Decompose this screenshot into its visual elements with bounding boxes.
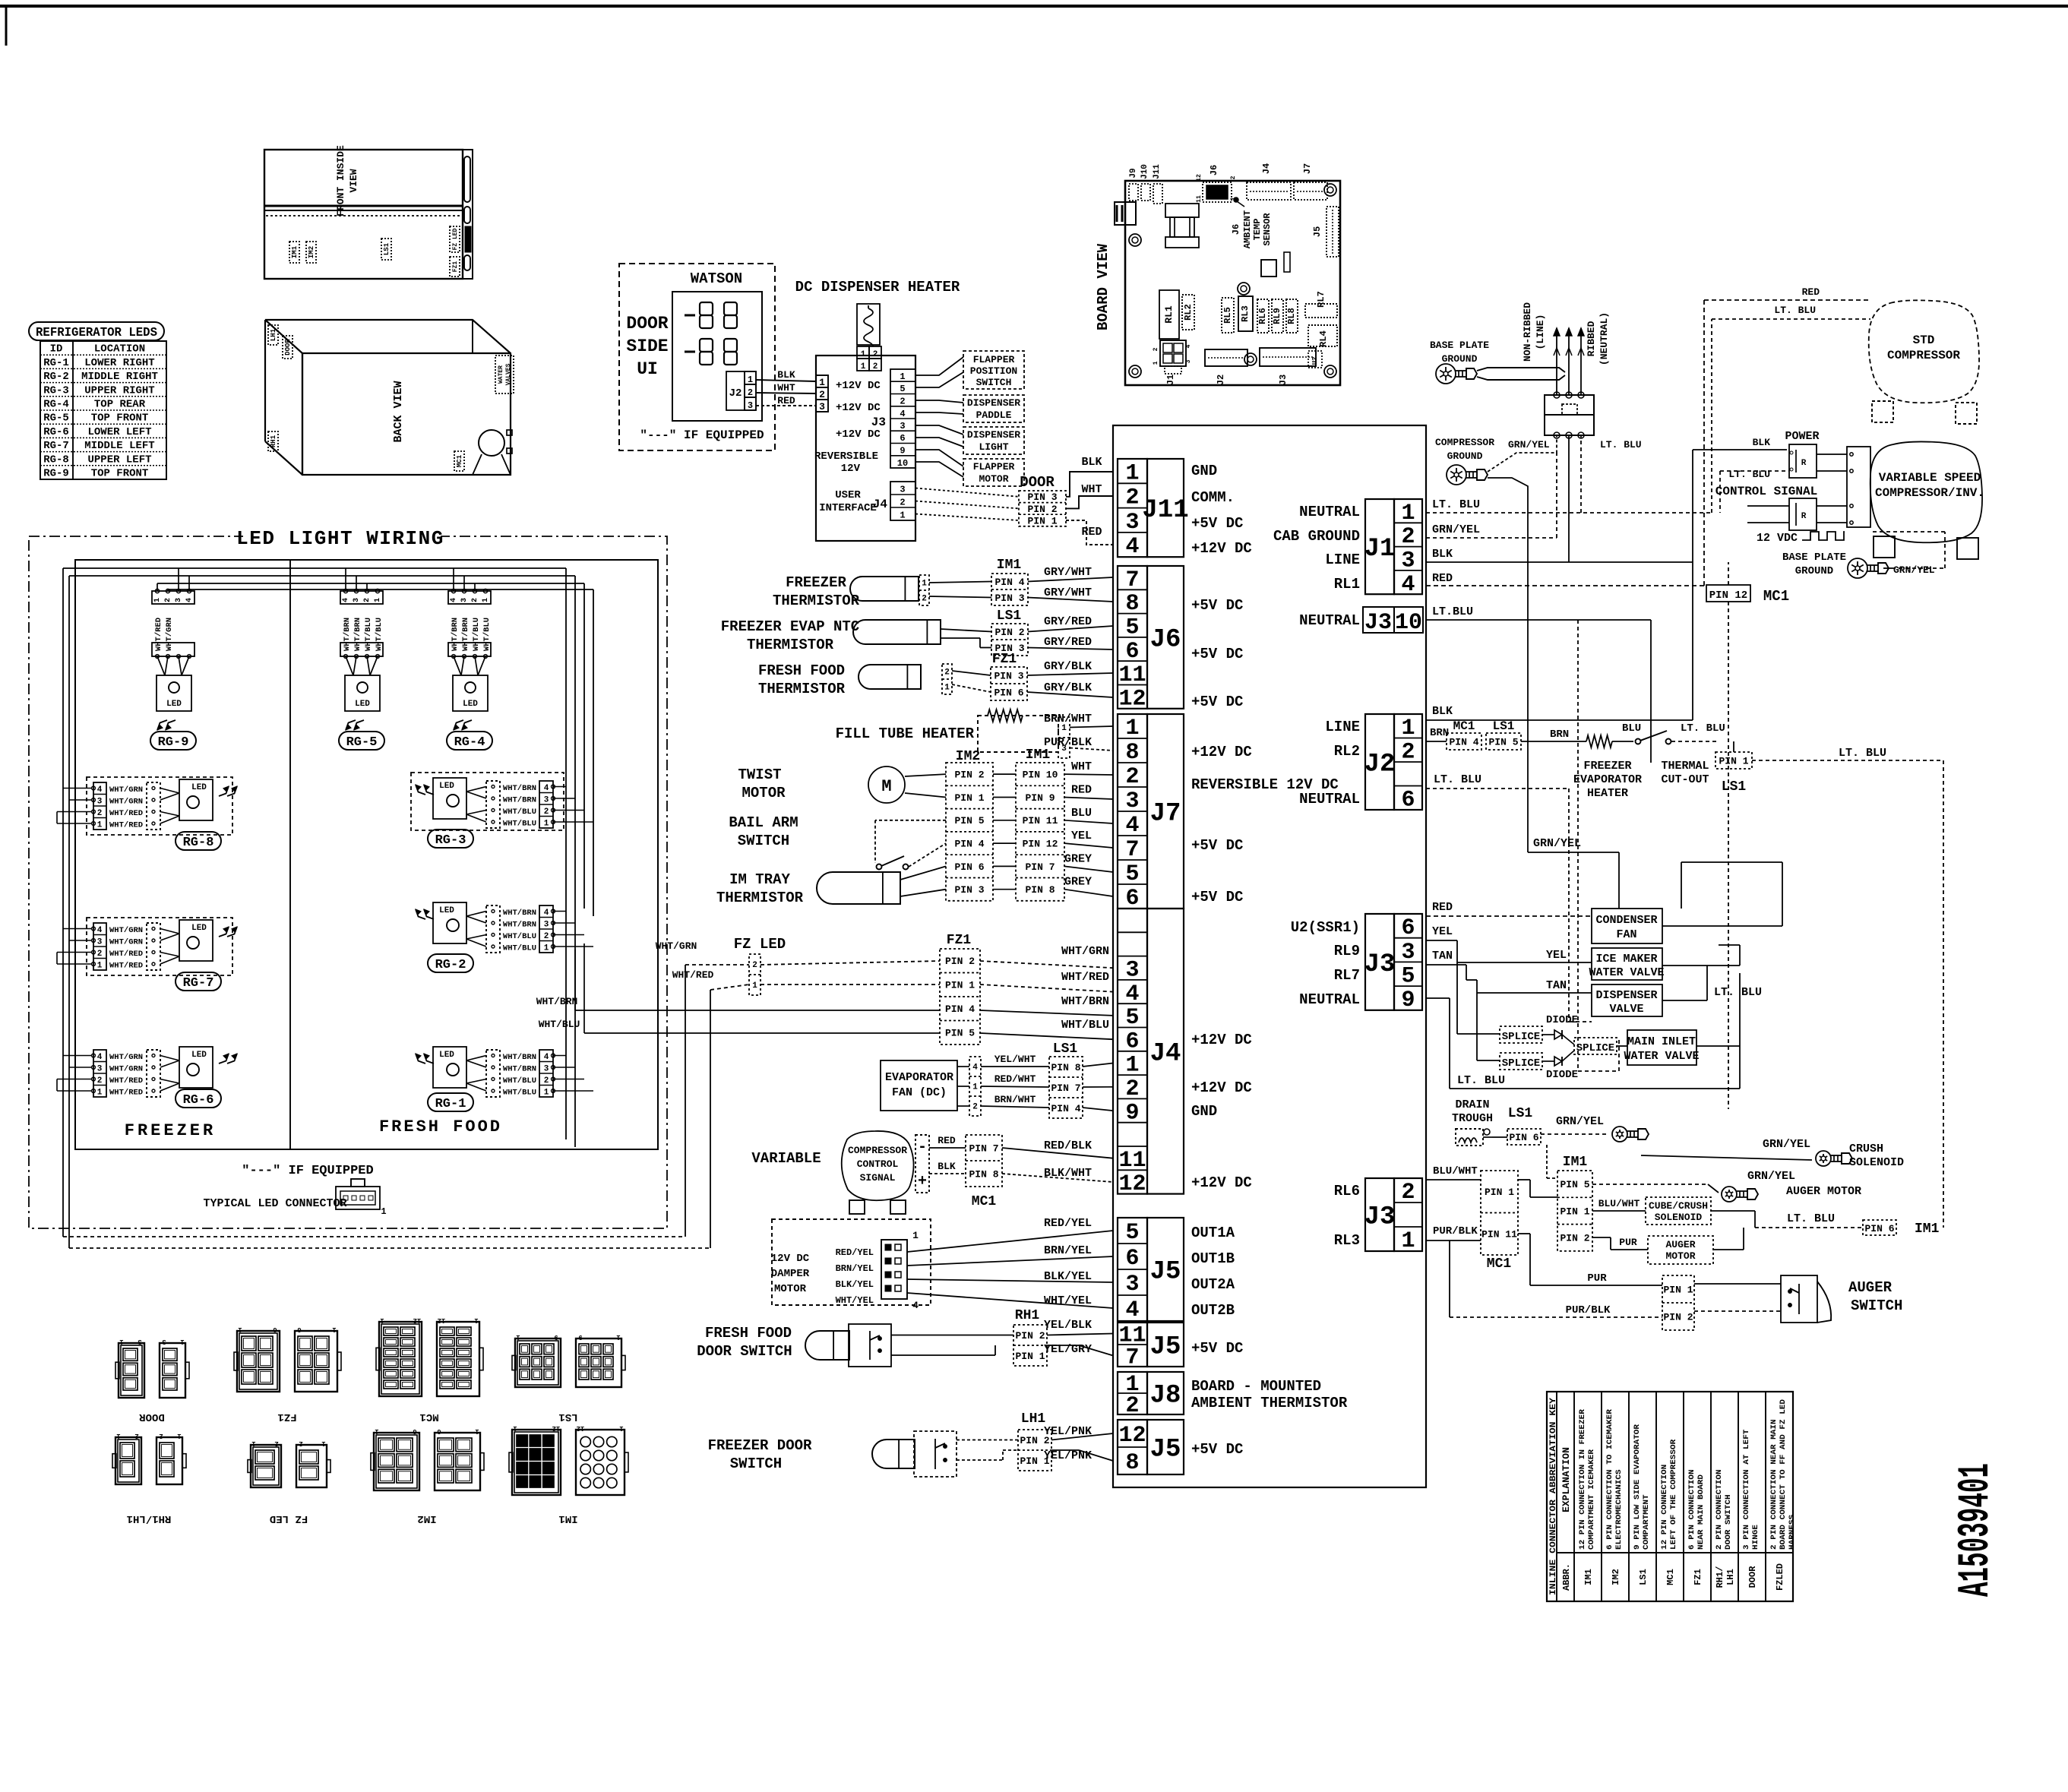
svg-text:1: 1 [1153,361,1159,365]
svg-text:10: 10 [1395,610,1422,636]
svg-text:DOOR SWITCH: DOOR SWITCH [697,1343,792,1360]
svg-text:WHT/YEL: WHT/YEL [836,1295,874,1306]
svg-text:1: 1 [944,684,950,693]
svg-text:2: 2 [972,1103,978,1112]
svg-text:AMBIENT: AMBIENT [1242,210,1253,248]
door side UI dashed enclosure [619,264,775,450]
cube crush solenoid [1646,1197,1711,1225]
svg-text:4: 4 [97,1053,103,1062]
svg-text:1: 1 [238,1326,242,1333]
svg-text:DAMPER: DAMPER [771,1268,810,1280]
wire WHT watson to UI [756,393,816,393]
svg-text:WHT/BRN: WHT/BRN [503,796,536,805]
pcb relay RL9 [1272,299,1283,333]
LED module RG-5 label [339,732,384,750]
LED module RG-1 pin connector [539,1050,553,1097]
svg-text:(LINE): (LINE) [1535,314,1546,350]
LED module RG-7 feed wires [63,928,92,930]
svg-text:THERMAL: THERMAL [1661,760,1709,773]
svg-text:IM1: IM1 [997,558,1022,573]
wires auger switch [1694,1283,1781,1285]
svg-text:4: 4 [1401,572,1415,598]
svg-text:1: 1 [475,1427,479,1435]
connector pictogram RH1/LH1 [115,1437,141,1484]
svg-text:FAN (DC): FAN (DC) [892,1086,947,1099]
svg-text:BLU/WHT: BLU/WHT [1598,1198,1640,1209]
svg-text:3: 3 [1125,1272,1139,1297]
svg-text:2: 2 [1125,485,1139,511]
svg-text:LOWER RIGHT: LOWER RIGHT [84,357,154,369]
svg-text:LEFT OF THE COMPRESSOR: LEFT OF THE COMPRESSOR [1669,1439,1678,1550]
svg-text:R: R [1801,512,1807,521]
back view MC1 marker [454,451,464,471]
pin12 MC1 node [1706,585,1750,602]
svg-text:CUBE/CRUSH: CUBE/CRUSH [1649,1200,1708,1212]
svg-text:AUGER MOTOR: AUGER MOTOR [1786,1185,1861,1198]
svg-text:WHT/RED: WHT/RED [109,1089,143,1098]
wire WHT/BLU to J4-6 [980,1033,1113,1039]
svg-text:TYPICAL LED CONNECTOR: TYPICAL LED CONNECTOR [203,1197,346,1210]
svg-text:RL2: RL2 [1183,304,1194,321]
svg-text:HEATER: HEATER [1587,787,1628,800]
svg-text:GROUND: GROUND [1442,353,1478,365]
svg-text:1: 1 [922,580,927,589]
svg-text:LED: LED [191,924,207,933]
svg-text:1: 1 [900,371,905,382]
svg-text:TOP FRONT: TOP FRONT [91,412,149,425]
wire PUR to auger switch [1530,1285,1662,1286]
svg-text:PIN 4: PIN 4 [945,1003,975,1015]
svg-text:LT. BLU: LT. BLU [1774,305,1816,316]
svg-text:LT. BLU: LT. BLU [1714,986,1762,999]
svg-text:WHT/BLU: WHT/BLU [503,1076,536,1086]
variable speed compressor blob [1870,441,1982,542]
svg-text:BLU/WHT: BLU/WHT [1433,1165,1478,1177]
svg-text:2: 2 [1125,1393,1139,1419]
page top border line [0,5,2068,8]
svg-text:+12V DC: +12V DC [1191,1174,1252,1191]
svg-text:ELECTROMECHANICS: ELECTROMECHANICS [1614,1469,1624,1550]
svg-text:NEAR MAIN BOARD: NEAR MAIN BOARD [1696,1474,1706,1550]
wires LH1 to J5 [957,1440,1018,1441]
svg-text:NEUTRAL: NEUTRAL [1299,791,1360,808]
heater connector cells [857,346,869,359]
LED module RG-2 feed wires [553,911,566,912]
svg-text:PIN 1: PIN 1 [945,980,975,991]
svg-text:LT. BLU: LT. BLU [1432,498,1480,511]
svg-text:3: 3 [460,598,469,602]
svg-text:(NEUTRAL): (NEUTRAL) [1598,312,1610,365]
svg-text:RH1/LH1: RH1/LH1 [127,1512,172,1525]
svg-text:THERMISTOR: THERMISTOR [758,681,846,697]
svg-text:TEMP: TEMP [1252,219,1263,241]
svg-text:12 PIN CONNECTION: 12 PIN CONNECTION [1660,1465,1669,1550]
wires MC1 to IM1 [1518,1179,1530,1180]
main control board outline [1113,425,1426,1487]
svg-text:GREY: GREY [1064,876,1092,889]
svg-text:PIN 2: PIN 2 [1027,504,1057,515]
LED module RG-4 label [447,732,492,750]
svg-text:SIGNAL: SIGNAL [860,1172,896,1184]
svg-text:RL5: RL5 [1222,307,1233,324]
svg-text:WHT/BRN: WHT/BRN [1061,995,1109,1008]
label REFRIGERATOR LEDS [29,322,164,340]
svg-text:5: 5 [1125,1220,1139,1246]
LED module RG-9 lamp [157,675,191,711]
svg-text:RG-6: RG-6 [43,426,69,438]
std compressor blob [1869,300,1979,403]
title LED LIGHT WIRING [243,526,441,547]
svg-text:TOP FRONT: TOP FRONT [91,468,149,480]
svg-text:WHT/BRN: WHT/BRN [503,1065,536,1074]
svg-text:3: 3 [162,1338,166,1345]
watson connector J2 [726,371,745,410]
svg-text:LED LIGHT WIRING: LED LIGHT WIRING [236,527,444,550]
svg-text:PIN 7: PIN 7 [969,1143,998,1154]
pcb connector J1 bottom [1160,340,1186,366]
UI left pins 1 2 3 [816,375,828,387]
svg-text:4: 4 [342,598,350,602]
svg-text:MC1: MC1 [456,454,463,467]
svg-text:FZLED: FZLED [1775,1563,1785,1591]
svg-text:IM1: IM1 [291,245,299,258]
LED module RG-2 strip connector [486,905,500,953]
svg-text:GRY/BLK: GRY/BLK [1044,660,1092,673]
LED module RG-8 feed wires [63,788,92,789]
svg-text:WHT: WHT [777,382,795,393]
wires fill tube heater to J7 [1070,726,1113,728]
svg-text:J3: J3 [1364,1203,1396,1232]
LED module RG-9 label [150,732,196,750]
svg-text:PIN 1: PIN 1 [1485,1187,1514,1198]
svg-text:J3: J3 [871,416,886,429]
svg-text:IM1: IM1 [1915,1222,1940,1237]
svg-text:UPPER RIGHT: UPPER RIGHT [84,384,154,397]
svg-text:J1: J1 [1165,375,1176,385]
front view connector FZ1 marker [450,257,460,277]
svg-text:+5V DC: +5V DC [1191,694,1243,710]
svg-text:MC1: MC1 [1763,588,1789,605]
svg-text:HINGE: HINGE [1751,1525,1760,1550]
back view DOOR marker [283,336,292,359]
svg-text:WHT/BRN: WHT/BRN [536,996,578,1007]
svg-text:NEUTRAL: NEUTRAL [1299,612,1360,629]
svg-text:UI: UI [637,359,658,379]
svg-text:+12V DC: +12V DC [1191,1079,1252,1096]
svg-text:1: 1 [900,510,905,521]
svg-text:VALVES: VALVES [505,363,512,385]
connector pictogram IM2 [374,1433,419,1490]
connector pictogram DOOR [119,1343,144,1398]
svg-text:9: 9 [578,1333,582,1341]
svg-text:MAIN INLET: MAIN INLET [1627,1035,1696,1048]
back view compressor [479,430,504,456]
svg-text:UPPER LEFT: UPPER LEFT [87,454,151,466]
svg-text:WHT/RED: WHT/RED [672,969,714,981]
svg-text:BLK/WHT: BLK/WHT [1044,1167,1092,1180]
svg-text:BLU: BLU [1622,722,1641,735]
wires IM2 to IM1 [993,773,1016,775]
svg-text:1: 1 [748,375,753,385]
wires GRY/BLK to J6 [952,671,991,675]
wires GRY/RED to J6 [941,629,991,632]
front view connector IM1 marker [289,242,299,263]
LED module RG-6 wires strip to LED [160,1056,179,1061]
svg-text:1: 1 [97,1089,103,1098]
svg-text:J9: J9 [1129,168,1138,178]
svg-text:PIN 2: PIN 2 [945,956,975,967]
svg-text:MOTOR: MOTOR [979,473,1008,485]
svg-text:2: 2 [164,598,172,602]
svg-text:J2: J2 [1364,751,1396,779]
svg-text:4: 4 [185,598,194,602]
svg-text:RG-5: RG-5 [43,412,69,425]
svg-text:RL6: RL6 [1257,308,1268,324]
svg-text:PUR/BLK: PUR/BLK [1433,1225,1478,1237]
damper motor connector [881,1240,907,1299]
pcb relay RL2 [1182,295,1194,330]
svg-text:RED/WHT: RED/WHT [994,1073,1036,1085]
svg-text:GND: GND [1191,1103,1217,1120]
svg-text:PIN 1: PIN 1 [1015,1351,1045,1362]
svg-text:WHT/BLU: WHT/BLU [503,944,536,953]
svg-text:WHT/GRN: WHT/GRN [109,1065,143,1074]
svg-text:RH1: RH1 [1015,1308,1040,1323]
svg-text:PIN 6: PIN 6 [1509,1132,1538,1143]
svg-text:FLAPPER: FLAPPER [973,461,1015,472]
flapper position switch box [963,351,1024,389]
svg-text:LS1: LS1 [1493,719,1515,733]
svg-text:POWER: POWER [1785,430,1819,443]
LED module RG-9 lower connector [152,643,194,656]
valve neutral returns [1662,965,1740,966]
svg-text:YEL/PNK: YEL/PNK [1044,1425,1092,1438]
LED module RG-5 lamp [345,675,380,711]
svg-text:EVAPORATOR: EVAPORATOR [885,1071,953,1084]
LED module RG-8 strip connector [147,782,160,830]
svg-text:LH1: LH1 [270,328,277,341]
svg-text:PIN 4: PIN 4 [954,839,984,850]
svg-text:RL2: RL2 [1334,743,1360,760]
dispenser valve [1592,984,1662,1016]
svg-text:"---" IF EQUIPPED: "---" IF EQUIPPED [242,1164,373,1178]
svg-text:LT. BLU: LT. BLU [1787,1212,1835,1225]
svg-text:LINE: LINE [1325,552,1360,568]
pcb relay RL8 [1286,299,1298,333]
svg-text:BOARD - MOUNTED: BOARD - MOUNTED [1191,1378,1321,1395]
svg-text:3: 3 [900,421,905,431]
svg-text:PIN 12: PIN 12 [1023,839,1058,850]
LED module RG-4 lower connector [448,643,491,656]
svg-text:VARIABLE: VARIABLE [751,1150,821,1167]
svg-text:GRY/WHT: GRY/WHT [1044,586,1092,599]
svg-text:LT.BLU: LT.BLU [1432,605,1473,618]
freezer / fresh food divider [289,560,291,1149]
svg-text:RL1: RL1 [1163,305,1175,324]
svg-text:J5: J5 [1312,226,1323,237]
pcb ic u-proc [1261,260,1276,277]
svg-text:MC1: MC1 [1453,719,1475,733]
svg-text:PIN 7: PIN 7 [1051,1082,1080,1094]
svg-text:9: 9 [900,446,905,457]
svg-text:BRN/WHT: BRN/WHT [994,1094,1036,1105]
svg-text:12: 12 [438,1316,446,1324]
svg-text:4: 4 [544,784,549,793]
svg-text:SOLENOID: SOLENOID [1849,1156,1904,1169]
svg-text:2 PIN CONNECTION NEAR MAIN: 2 PIN CONNECTION NEAR MAIN [1769,1419,1779,1550]
svg-text:J4: J4 [1150,1039,1181,1068]
svg-text:1: 1 [474,1316,479,1324]
svg-text:PIN 3: PIN 3 [1027,491,1057,503]
svg-text:2: 2 [944,668,950,678]
pcb connector J4 top [1247,182,1291,200]
svg-text:+5V DC: +5V DC [1191,837,1243,854]
LED module RG-3 pin connector [539,781,553,828]
svg-text:MC1: MC1 [1487,1256,1512,1272]
LED module RG-3 label [428,830,473,848]
svg-text:SWITCH: SWITCH [1851,1297,1902,1314]
svg-text:MC1: MC1 [972,1194,997,1209]
svg-text:WHT/BLU: WHT/BLU [1061,1019,1109,1032]
svg-text:PUR: PUR [1619,1237,1637,1248]
LED module RG-6 pin connector [93,1050,106,1097]
svg-text:IM1: IM1 [1563,1155,1588,1170]
connector J6 [1118,566,1147,709]
svg-text:+5V DC: +5V DC [1191,1441,1243,1458]
svg-text:GRN/YEL: GRN/YEL [1508,439,1550,450]
pcb relay RL3 [1238,296,1253,331]
svg-text:COMPARTMENT ICEMAKER: COMPARTMENT ICEMAKER [1587,1449,1596,1550]
svg-text:YEL/WHT: YEL/WHT [994,1054,1036,1065]
wires compressor signal [929,1147,966,1149]
LED module RG-1 feed wires [553,1055,566,1057]
svg-text:WHT/GRN: WHT/GRN [109,785,143,795]
svg-text:STD: STD [1913,333,1935,347]
wire BLU/WHT IM1 pin1 [1592,1210,1646,1212]
pcb relay RL5 [1222,298,1234,333]
svg-text:PIN 2: PIN 2 [1560,1233,1589,1244]
svg-text:LT. BLU: LT. BLU [1681,722,1725,735]
svg-text:WHT/BLU: WHT/BLU [472,618,481,651]
wires RH1 to J5 [891,1335,1013,1336]
svg-text:PIN 1: PIN 1 [1719,755,1748,766]
svg-text:PIN 2: PIN 2 [1015,1330,1045,1342]
connector J1 [1365,499,1394,594]
svg-text:J5: J5 [1150,1333,1181,1362]
svg-text:PUR/BLK: PUR/BLK [1044,736,1092,749]
svg-text:NEUTRAL: NEUTRAL [1299,504,1360,520]
svg-text:2: 2 [873,362,878,371]
svg-text:3: 3 [748,400,753,411]
svg-text:WHT/BLU: WHT/BLU [503,932,536,941]
connector pictogram FZ1 [237,1331,280,1392]
svg-text:FILL TUBE HEATER: FILL TUBE HEATER [836,725,975,742]
svg-text:12: 12 [1118,686,1146,712]
svg-text:PIN 6: PIN 6 [994,687,1023,698]
svg-text:GRY/WHT: GRY/WHT [1044,566,1092,579]
svg-text:WHT/GRN: WHT/GRN [165,618,174,651]
svg-text:J8: J8 [1150,1382,1181,1411]
svg-text:BOARD VIEW: BOARD VIEW [1095,243,1111,330]
front view connector IM2 marker [306,242,316,263]
pcb transformer [1165,204,1199,217]
pcb connector J5 right [1326,207,1339,257]
svg-text:RG-6: RG-6 [183,1093,214,1108]
svg-text:1: 1 [912,1230,919,1241]
svg-text:J2: J2 [729,387,742,400]
svg-text:PUR/BLK: PUR/BLK [1566,1304,1611,1316]
svg-text:6: 6 [273,1326,277,1333]
svg-text:LOWER LEFT: LOWER LEFT [87,426,151,438]
front view freezer separator [264,205,463,207]
svg-text:IM1: IM1 [1583,1569,1594,1585]
svg-text:4: 4 [544,1053,549,1062]
svg-text:9: 9 [554,1333,558,1341]
LED module RG-1 wires LED to strip [466,1056,486,1061]
connector J4 [1118,909,1147,1194]
svg-text:PADDLE: PADDLE [976,409,1012,421]
svg-text:J11: J11 [1142,496,1188,525]
svg-text:REVERSIBLE: REVERSIBLE [814,450,878,463]
svg-text:THERMISTOR: THERMISTOR [716,890,804,906]
condenser fan [1592,909,1662,943]
LED module RG-4 wires to LED [454,656,461,675]
svg-text:CAB GROUND: CAB GROUND [1273,528,1360,545]
svg-text:CONTROL: CONTROL [857,1158,899,1170]
svg-text:HARNESS: HARNESS [1788,1515,1797,1550]
svg-text:FZ LED: FZ LED [452,228,459,250]
wires GRY/WHT to J6 [929,582,991,583]
inverter input block [1847,447,1870,527]
svg-text:12: 12 [1118,1171,1146,1197]
svg-text:R: R [1801,459,1807,468]
svg-text:J5: J5 [1150,1436,1181,1465]
svg-text:PIN 8: PIN 8 [1051,1062,1080,1073]
svg-text:"---" IF EQUIPPED: "---" IF EQUIPPED [640,428,764,442]
svg-text:WHT/BRN: WHT/BRN [503,909,536,918]
LED module RG-3 wires LED to strip [466,787,486,792]
flapper motor box [963,459,1024,486]
connector pictogram FZ LED [251,1445,281,1487]
svg-text:12: 12 [577,1424,585,1432]
svg-text:PIN 3: PIN 3 [994,670,1023,681]
connector J3 relays [1365,914,1394,1010]
svg-text:YEL: YEL [1546,949,1567,962]
LED module RG-7 label [175,972,221,991]
svg-text:1: 1 [482,598,490,602]
svg-text:BLK: BLK [1432,548,1453,561]
svg-text:GRN/YEL: GRN/YEL [1556,1115,1604,1128]
svg-text:GRY/RED: GRY/RED [1044,615,1092,628]
svg-text:PIN 5: PIN 5 [954,815,984,826]
auger switch connector [1662,1275,1694,1330]
svg-text:FREEZER: FREEZER [786,574,846,591]
svg-text:EXPLANATION: EXPLANATION [1560,1447,1572,1512]
svg-text:FZ1: FZ1 [1693,1569,1703,1585]
svg-text:ABBR.: ABBR. [1561,1563,1572,1591]
svg-text:RED: RED [1071,784,1092,797]
svg-text:LT. BLU: LT. BLU [1600,439,1642,450]
svg-text:PIN 5: PIN 5 [1560,1179,1589,1190]
svg-text:7: 7 [1125,1345,1139,1371]
LED module RG-2 pin connector [539,905,553,953]
svg-text:LT. BLU: LT. BLU [1457,1074,1505,1087]
led right bus vertical wires [565,568,567,1139]
svg-text:+12V DC: +12V DC [836,428,881,441]
pcb relay RL4 [1308,325,1337,346]
svg-text:BOARD CONNECT TO FF AND FZ LED: BOARD CONNECT TO FF AND FZ LED [1779,1399,1788,1550]
svg-text:GROUND: GROUND [1447,450,1483,462]
